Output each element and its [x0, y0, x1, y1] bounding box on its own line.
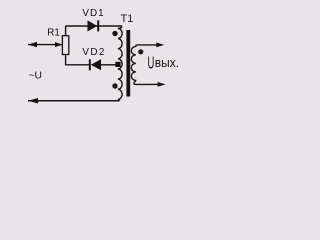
- transformer T1 secondary winding: [131, 45, 136, 85]
- arrow: wiper into R1: [55, 42, 62, 47]
- dot: primary bottom phase dot: [112, 83, 117, 88]
- wire: VD2 to primary tap: [101, 64, 116, 66]
- arrow: input terminal left: [28, 42, 37, 47]
- dot: secondary phase dot: [138, 49, 143, 54]
- svg-text:R1: R1: [47, 27, 60, 38]
- wire: secondary bottom output: [134, 83, 160, 85]
- arrow: output bottom: [158, 82, 166, 87]
- resistor R1 body: [62, 36, 68, 55]
- transformer core: [126, 30, 130, 97]
- arrow: input terminal bottom: [28, 98, 38, 104]
- svg-text:VD2: VD2: [82, 47, 105, 58]
- diode VD2: [89, 59, 91, 70]
- transformer T1 primary winding: [118, 28, 122, 101]
- svg-text:T1: T1: [121, 13, 134, 25]
- svg-text:VD1: VD1: [82, 8, 104, 19]
- wire: input wiper line to R1: [28, 44, 62, 46]
- svg-text:вых.: вых.: [155, 55, 179, 70]
- svg-text:~U: ~U: [29, 70, 42, 81]
- wire: secondary top output: [137, 44, 160, 46]
- wire: bottom rail: [28, 100, 120, 102]
- wire: R1 top to top rail: [65, 26, 67, 36]
- svg-text:U: U: [148, 53, 155, 73]
- diode VD1: [88, 20, 98, 31]
- wire: R1 bottom to VD2 branch: [66, 54, 89, 65]
- arrow: output top: [156, 43, 164, 48]
- dot: primary top phase dot: [112, 31, 117, 36]
- wire: top rail: [66, 26, 122, 28]
- junction: primary center tap: [115, 62, 120, 67]
